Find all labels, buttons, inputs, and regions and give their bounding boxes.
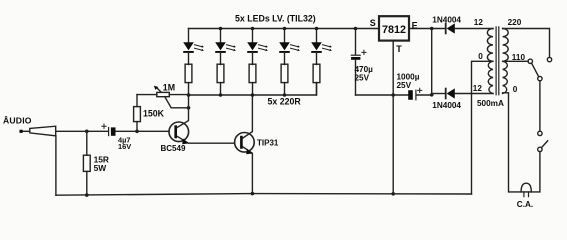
resistor R2 150K (134, 95, 141, 132)
regulator U1 7812 (379, 16, 409, 40)
svg-text:16V: 16V (118, 142, 131, 151)
svg-text:5W: 5W (94, 163, 107, 173)
LED D3 (TIL32) (247, 29, 268, 65)
node 15R bottom (85, 193, 89, 197)
resistor 220R #1 (185, 64, 192, 95)
svg-text:500mA: 500mA (477, 99, 504, 108)
capacitor C1 4u7 16V electrolytic (102, 124, 116, 136)
wire selector pole down to power switch (539, 81, 541, 131)
wire primary 110 tap (503, 60, 528, 62)
wire 7812 E pin to rectifier (409, 28, 445, 30)
svg-text:1N4004: 1N4004 (432, 15, 461, 24)
wire power switch to plug (531, 152, 540, 192)
wire cap to BC549 base (116, 130, 170, 132)
wire primary 0 terminal down to plug (503, 93, 521, 192)
AC plug P1 (521, 183, 531, 196)
svg-text:1N4004: 1N4004 (432, 101, 461, 110)
wire rectifier output down to filter cap (431, 29, 433, 95)
svg-text:25V: 25V (355, 73, 370, 82)
node 15R tap (85, 130, 89, 134)
node 7812 T pin bottom (391, 192, 395, 196)
transformer T1 secondary winding 12-0-12 (487, 29, 493, 94)
svg-text:1M: 1M (163, 82, 175, 92)
wire secondary centre tap (472, 61, 494, 194)
svg-text:110: 110 (512, 53, 526, 62)
switch SW1 voltage selector lever (532, 63, 539, 76)
svg-text:0: 0 (513, 85, 518, 94)
wire primary 220 terminal (503, 29, 550, 58)
resistor 220R #5 (313, 64, 320, 95)
wire LED cathode common rail to TIP31 collector (189, 83, 317, 95)
node TIP31 emitter bottom (251, 192, 255, 196)
wire top +12V rail from LED1 to 7812 S pin (189, 28, 380, 30)
node LED rail junctions (187, 93, 191, 97)
potentiometer P1 1M (137, 86, 189, 108)
switch SW2 lever (541, 141, 547, 148)
svg-text:ÂUDIO: ÂUDIO (3, 115, 32, 126)
svg-text:12: 12 (473, 84, 483, 93)
wire 7812 T pin down (392, 41, 394, 194)
node LED3 top (251, 27, 255, 31)
LED D4 (TIL32) (279, 29, 300, 65)
audio input jack J1 (20, 126, 56, 136)
svg-text:TIP31: TIP31 (257, 139, 279, 148)
resistor 220R #4 (281, 64, 288, 95)
transistor Q1 BC549 (169, 95, 235, 144)
svg-text:0: 0 (478, 52, 483, 61)
svg-text:5x LEDs LV. (TIL32): 5x LEDs LV. (TIL32) (235, 14, 316, 24)
wire ground segment 470u to 1000u (356, 94, 409, 96)
transformer T1 primary winding 0-110-220 (503, 29, 509, 94)
node LED2 top (219, 27, 223, 31)
svg-text:5x 220R: 5x 220R (268, 97, 302, 107)
node T pin ground junction (391, 93, 395, 97)
node 150K base junction (135, 130, 139, 134)
wire jack tip to coupling cap (56, 130, 108, 132)
node 220 selector contact (547, 57, 551, 61)
node selector pole contact (538, 76, 542, 80)
node filter cap junction (430, 93, 434, 97)
svg-text:BC549: BC549 (161, 144, 186, 153)
switch SW2 on-off lower contact (538, 147, 542, 151)
resistor R1 15R 5W (83, 131, 90, 195)
node 110 selector contact (528, 59, 532, 63)
wire jack sleeve down to ground rail (55, 136, 57, 195)
transistor Q2 TIP31 (235, 95, 255, 194)
LED D5 (TIL32) (311, 29, 332, 65)
wire ground bottom rail (56, 194, 472, 196)
node rectifier output junction (430, 27, 434, 31)
diode D7 1N4004 bottom (432, 88, 493, 98)
svg-text:7812: 7812 (382, 24, 406, 36)
transformer T1 core (496, 27, 499, 95)
LED D1 (TIL32) (183, 29, 204, 65)
svg-text:12: 12 (474, 18, 484, 27)
svg-text:E: E (412, 20, 418, 30)
node LED5 top (315, 27, 319, 31)
svg-text:220: 220 (508, 18, 522, 27)
capacitor C3 1000u 25V electrolytic (408, 88, 432, 100)
capacitor C2 470u 25V electrolytic (351, 29, 366, 96)
node pot wiper junction (187, 106, 191, 110)
svg-text:T: T (396, 44, 402, 54)
svg-text:25V: 25V (397, 81, 412, 90)
resistor 220R #3 (249, 64, 256, 95)
svg-text:S: S (370, 18, 376, 28)
diode D6 1N4004 top (446, 23, 493, 33)
switch SW2 on-off upper contact (538, 131, 542, 135)
resistor 220R #2 (217, 64, 224, 95)
svg-text:C.A.: C.A. (517, 200, 533, 209)
LED D2 (TIL32) (215, 29, 236, 65)
svg-text:150K: 150K (143, 109, 165, 119)
node 470u cap tap on rail (354, 27, 358, 31)
node LED4 top (283, 27, 287, 31)
